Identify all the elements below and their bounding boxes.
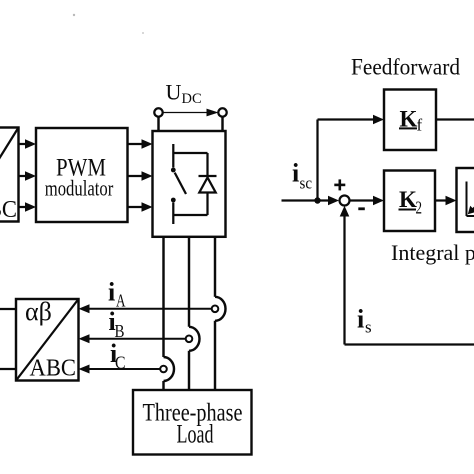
- terminal: U_DC right: [218, 108, 226, 131]
- wire: feedforward branch vertical: [316, 120, 318, 201]
- transform block U4 alpha-beta to ABC: [16, 299, 79, 381]
- wire: beta output (cut at left): [0, 368, 16, 370]
- wire: phase B (middle, inverter to load): [189, 237, 200, 390]
- wire: feedback horizontal from right: [345, 343, 474, 345]
- wire: diode branch vertical bottom: [206, 193, 208, 216]
- node: feedforward tap: [314, 197, 320, 203]
- label i_s: [357, 305, 372, 337]
- speck artifact: [142, 32, 144, 34]
- svg-text:Load: Load: [177, 420, 214, 449]
- svg-text:ABC: ABC: [0, 197, 17, 223]
- svg-text:K: K: [399, 187, 417, 212]
- current sensor B: [186, 336, 193, 343]
- svg-text:i: i: [357, 305, 364, 334]
- wire: i_C sense line: [79, 365, 161, 374]
- svg-text:B: B: [115, 321, 125, 341]
- svg-text:f: f: [417, 116, 423, 135]
- svg-text:2: 2: [416, 197, 423, 217]
- inverter block U3: [153, 131, 226, 237]
- svg-text:U: U: [166, 80, 182, 105]
- label i_B: [109, 307, 125, 341]
- wire: i_B sense line: [79, 334, 186, 343]
- current sensor C: [160, 366, 167, 373]
- label -: [358, 207, 365, 210]
- wire: Kf output: [436, 118, 474, 120]
- switch Q1 (inside inverter): [171, 144, 186, 224]
- label +: [334, 179, 345, 190]
- label i_A: [108, 278, 126, 311]
- svg-text:i: i: [108, 278, 115, 307]
- wire: left block to PWM top: [19, 139, 37, 149]
- svg-text:ABC: ABC: [30, 356, 77, 382]
- wire: i_A sense line: [79, 304, 212, 313]
- svg-text:αβ: αβ: [25, 297, 52, 326]
- svg-text:C: C: [115, 352, 126, 372]
- wire: bottom branch horizontal: [173, 214, 207, 216]
- wire: switch top branch: [173, 152, 207, 154]
- label i_C: [110, 339, 126, 372]
- svg-text:Integral part: Integral part: [391, 240, 474, 265]
- svg-text:DC: DC: [182, 91, 202, 107]
- PWM modulator block: [36, 128, 128, 222]
- wire: summing junction to K2: [350, 196, 385, 206]
- speck artifact top left: [73, 14, 75, 16]
- wire: feedback vertical into summing junction: [340, 206, 350, 345]
- current sensor A: [212, 306, 219, 313]
- wire: K2 output: [435, 196, 457, 206]
- wire: feedforward branch to Kf: [318, 115, 385, 125]
- transform block U2 (cut at left edge): [0, 128, 19, 222]
- diode D1: [199, 176, 217, 193]
- wire: PWM to inverter top: [128, 139, 153, 149]
- summing junction S1: [340, 196, 350, 206]
- wire: PWM to inverter bottom: [128, 202, 153, 212]
- gain block Kf: [384, 90, 436, 151]
- voltage arrow U_DC: [164, 109, 219, 117]
- terminal: U_DC left: [154, 108, 162, 131]
- wire: i_sc input: [282, 196, 340, 206]
- wire: alpha output (cut at left): [0, 308, 16, 310]
- gain block K2: [384, 171, 435, 232]
- svg-text:sc: sc: [300, 174, 313, 193]
- wire: phase C (leftmost, inverter to load): [164, 237, 175, 390]
- svg-text:s: s: [365, 318, 372, 337]
- svg-text:modulator: modulator: [45, 176, 114, 201]
- wire: PWM to inverter middle: [128, 171, 153, 181]
- wire: left block to PWM middle: [19, 171, 37, 181]
- label i_sc: [292, 159, 312, 193]
- label U_DC: [166, 80, 202, 108]
- label K_f: [399, 107, 423, 135]
- wire: left block to PWM bottom: [19, 202, 37, 212]
- svg-text:A: A: [116, 291, 126, 311]
- three-phase load block: [133, 390, 252, 455]
- wire: diode branch vertical top: [206, 153, 208, 176]
- wire: phase A (rightmost, inverter to load): [215, 237, 226, 390]
- integrator block (cut at right edge): [457, 168, 474, 232]
- svg-text:Feedforward: Feedforward: [351, 55, 460, 80]
- svg-text:i: i: [292, 159, 299, 188]
- label K_2: [399, 187, 423, 217]
